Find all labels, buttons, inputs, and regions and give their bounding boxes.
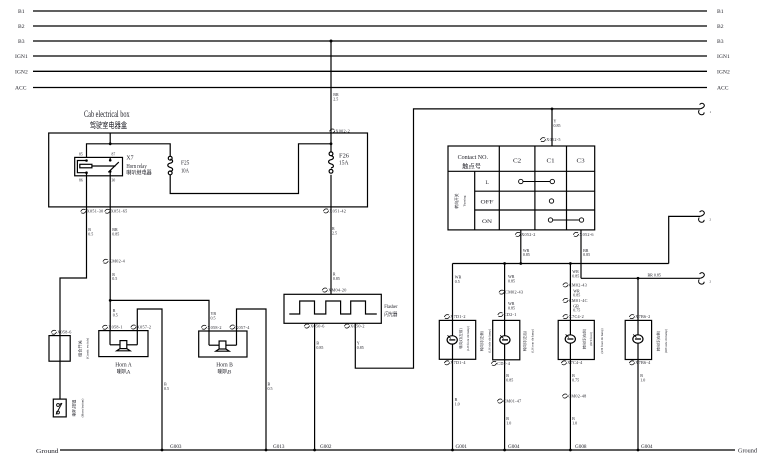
- svg-text:0.75: 0.75: [572, 377, 579, 382]
- svg-text:ON: ON: [482, 219, 492, 225]
- svg-text:X052-2: X052-2: [521, 232, 535, 237]
- svg-text:10A: 10A: [181, 168, 190, 174]
- svg-text:CM01-4C: CM01-4C: [569, 298, 588, 303]
- svg-text:0.5: 0.5: [268, 386, 273, 391]
- svg-text:L: L: [486, 180, 490, 186]
- svg-text:G008: G008: [575, 445, 587, 450]
- svg-text:0.85: 0.85: [508, 278, 515, 283]
- svg-text:CM02-48: CM02-48: [568, 393, 586, 398]
- svg-text:G004: G004: [641, 445, 653, 450]
- svg-text:驾驶室电器盒: 驾驶室电器盒: [90, 120, 127, 130]
- svg-text:0.5: 0.5: [455, 279, 460, 284]
- svg-text:Horn A: Horn A: [115, 363, 132, 369]
- svg-text:Flasher: Flasher: [384, 304, 398, 310]
- svg-text:G004: G004: [508, 445, 520, 450]
- svg-text:85: 85: [79, 153, 83, 157]
- svg-text:IGN2: IGN2: [15, 70, 28, 76]
- svg-text:15A: 15A: [339, 161, 349, 167]
- svg-text:X058-2: X058-2: [207, 325, 221, 330]
- svg-text:2: 2: [710, 218, 712, 222]
- svg-text:B2: B2: [18, 24, 25, 30]
- svg-text:(Horn button): (Horn button): [81, 399, 85, 418]
- svg-text:X7C4-4: X7C4-4: [567, 360, 583, 365]
- svg-text:转向灯(右侧): 转向灯(右侧): [656, 330, 661, 351]
- svg-text:喇叭继电器: 喇叭继电器: [126, 169, 152, 177]
- svg-text:(LH side dir lamp): (LH side dir lamp): [487, 329, 491, 353]
- svg-text:2.5: 2.5: [332, 230, 337, 235]
- svg-text:X052-6: X052-6: [579, 232, 593, 237]
- svg-text:Ground: Ground: [738, 449, 757, 455]
- svg-text:(Comb. switch): (Comb. switch): [86, 338, 90, 359]
- svg-text:2: 2: [710, 279, 712, 283]
- svg-text:(RH side dir lamp): (RH side dir lamp): [664, 329, 668, 353]
- svg-text:X7D1-4: X7D1-4: [450, 360, 466, 365]
- svg-text:X057-4: X057-4: [235, 325, 250, 330]
- svg-text:IGN2: IGN2: [717, 70, 730, 76]
- svg-text:闪光器: 闪光器: [384, 311, 397, 318]
- svg-text:Contact NO.: Contact NO.: [458, 155, 489, 161]
- svg-text:1.0: 1.0: [640, 377, 645, 382]
- svg-text:B3: B3: [18, 39, 25, 45]
- svg-text:0.85: 0.85: [583, 252, 590, 257]
- svg-text:1.0: 1.0: [506, 420, 511, 425]
- svg-text:G002: G002: [320, 445, 332, 450]
- svg-text:ACC: ACC: [717, 86, 729, 92]
- svg-text:0.85: 0.85: [357, 345, 364, 350]
- svg-text:86: 86: [79, 178, 83, 182]
- svg-text:Turning: Turning: [463, 195, 467, 206]
- svg-text:X7B6-2: X7B6-2: [635, 314, 650, 319]
- svg-text:G013: G013: [273, 445, 285, 450]
- svg-text:C3: C3: [577, 159, 585, 165]
- svg-text:B1: B1: [18, 9, 25, 15]
- svg-text:B1: B1: [717, 9, 724, 15]
- svg-text:CM02-43: CM02-43: [569, 282, 587, 287]
- svg-text:Ground: Ground: [36, 449, 59, 455]
- svg-text:0.85: 0.85: [333, 276, 340, 281]
- svg-text:X7D1-2: X7D1-2: [450, 314, 465, 319]
- svg-text:CD2-1: CD2-1: [504, 312, 517, 317]
- svg-text:X051-65: X051-65: [111, 209, 128, 214]
- svg-text:(RH front): (RH front): [589, 332, 593, 346]
- svg-text:触点号: 触点号: [462, 162, 481, 170]
- svg-text:C2: C2: [513, 159, 521, 165]
- svg-text:(RH front dir lamp): (RH front dir lamp): [600, 328, 604, 353]
- svg-text:X7C4-2: X7C4-2: [569, 314, 584, 319]
- svg-text:30: 30: [112, 178, 116, 182]
- svg-text:F25: F25: [181, 160, 189, 166]
- svg-text:转向灯(右前): 转向灯(右前): [582, 328, 587, 349]
- svg-text:转向灯(左前): 转向灯(左前): [458, 328, 463, 349]
- svg-text:0.75: 0.75: [573, 308, 580, 313]
- svg-text:转向灯(左侧): 转向灯(左侧): [479, 330, 484, 351]
- svg-text:喇叭按钮: 喇叭按钮: [71, 400, 78, 417]
- svg-text:CM02-43: CM02-43: [505, 290, 523, 295]
- svg-text:G001: G001: [456, 445, 468, 450]
- svg-text:X051-30: X051-30: [87, 209, 104, 214]
- svg-text:0.5: 0.5: [88, 231, 93, 236]
- svg-text:0.85: 0.85: [523, 252, 530, 257]
- svg-text:X051-42: X051-42: [329, 208, 346, 213]
- svg-text:1.0: 1.0: [572, 420, 577, 425]
- svg-text:X050-6: X050-6: [310, 323, 324, 328]
- svg-text:0.85: 0.85: [506, 377, 513, 382]
- svg-text:X058-6: X058-6: [57, 330, 71, 335]
- svg-text:1: 1: [710, 110, 712, 114]
- svg-text:X058-1: X058-1: [108, 325, 122, 330]
- svg-text:Cab electrical box: Cab electrical box: [84, 110, 130, 120]
- svg-text:CM01-47: CM01-47: [503, 398, 521, 403]
- svg-text:组合开关: 组合开关: [76, 340, 83, 357]
- svg-text:0.85: 0.85: [316, 345, 323, 350]
- svg-text:IGN1: IGN1: [15, 54, 28, 60]
- svg-text:X7: X7: [126, 155, 133, 161]
- svg-text:0.85: 0.85: [112, 231, 119, 236]
- svg-text:X7B6-4: X7B6-4: [635, 360, 651, 365]
- svg-text:X057-2: X057-2: [137, 324, 151, 329]
- svg-text:0.85: 0.85: [554, 123, 561, 128]
- svg-text:转向灯(左后): 转向灯(左后): [522, 330, 527, 351]
- svg-text:0.5: 0.5: [112, 276, 117, 281]
- svg-text:OFF: OFF: [481, 200, 494, 206]
- svg-text:B3: B3: [717, 39, 724, 45]
- svg-text:B2: B2: [717, 24, 724, 30]
- svg-text:X052-5: X052-5: [546, 137, 560, 142]
- svg-text:0.5: 0.5: [164, 386, 169, 391]
- svg-text:0.85: 0.85: [572, 273, 579, 278]
- svg-text:0.5: 0.5: [113, 312, 118, 317]
- svg-text:CD2-4: CD2-4: [497, 361, 510, 366]
- svg-text:G003: G003: [170, 445, 182, 450]
- svg-text:转向开关: 转向开关: [454, 193, 459, 208]
- svg-text:F26: F26: [339, 154, 349, 160]
- svg-text:XM02-4: XM02-4: [109, 259, 126, 264]
- svg-text:Horn relay: Horn relay: [126, 164, 146, 170]
- svg-text:C1: C1: [547, 159, 555, 165]
- svg-text:1.0: 1.0: [455, 401, 460, 406]
- svg-text:0.85: 0.85: [573, 293, 580, 298]
- svg-text:X050-2: X050-2: [350, 323, 364, 328]
- svg-text:XM04-20: XM04-20: [328, 287, 346, 292]
- svg-text:(LH front dir lamp): (LH front dir lamp): [466, 326, 470, 351]
- svg-text:X002-2: X002-2: [336, 128, 350, 133]
- svg-text:(LH rear dir lamp): (LH rear dir lamp): [531, 329, 535, 353]
- svg-text:喇叭B: 喇叭B: [218, 367, 232, 375]
- svg-text:2.5: 2.5: [333, 96, 338, 101]
- svg-text:IGN1: IGN1: [717, 54, 730, 60]
- svg-text:87: 87: [112, 153, 116, 157]
- svg-text:Horn B: Horn B: [216, 363, 233, 369]
- svg-text:0.85: 0.85: [508, 305, 515, 310]
- svg-text:BR 0.85: BR 0.85: [648, 273, 661, 278]
- svg-text:0.5: 0.5: [211, 315, 216, 320]
- svg-text:喇叭A: 喇叭A: [117, 367, 131, 375]
- svg-text:ACC: ACC: [15, 86, 27, 92]
